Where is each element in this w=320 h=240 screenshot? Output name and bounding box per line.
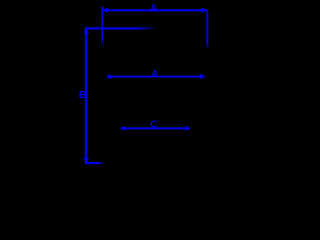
dimension line C (bottom): [121, 127, 190, 129]
arrowhead A left: [102, 7, 108, 13]
part inner step edge left: [119, 29, 121, 156]
arrowhead middle A right: [200, 74, 205, 79]
svg-text:B: B: [79, 90, 86, 101]
arrowhead B down: [83, 158, 89, 164]
witness stub, bottom of B bracket (fades right): [85, 162, 106, 164]
svg-text:A: A: [150, 3, 158, 15]
witness stub, top of B bracket (fades right): [85, 27, 157, 29]
dimension line B (left vertical): [85, 28, 87, 163]
part inner step edge right: [189, 29, 191, 156]
svg-text:C: C: [150, 120, 157, 131]
arrowhead B up: [83, 28, 89, 34]
arrowhead C right: [185, 126, 190, 131]
dimension line A (top): [103, 9, 207, 11]
arrowhead C left: [120, 126, 125, 131]
extension line, dimension A top right: [206, 11, 208, 50]
dimension line A (middle, duplicate width): [107, 76, 205, 78]
arrowhead middle A left: [106, 74, 111, 79]
svg-text:A: A: [152, 69, 159, 79]
extension line, dimension A top left: [101, 7, 103, 48]
part outline (black geometry of the machined part): [96, 29, 206, 156]
arrowhead A right: [201, 7, 207, 13]
